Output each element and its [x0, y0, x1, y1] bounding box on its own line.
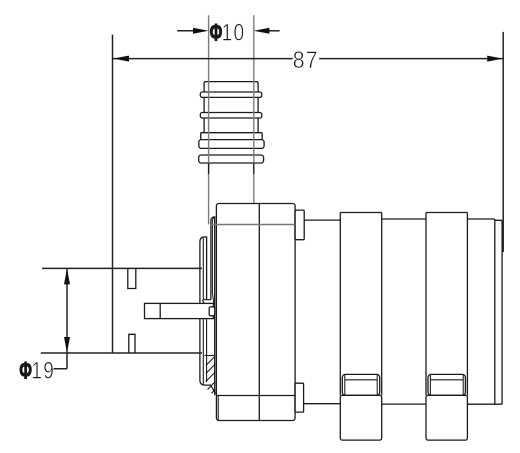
pump head inner wall bottom-left — [217, 396, 219, 421]
section hatching — [204, 355, 214, 357]
tube step collar — [201, 133, 263, 140]
arrowhead Phi19 down — [64, 337, 70, 353]
rear flange plate B — [211, 217, 215, 395]
clamp 2 buckle — [428, 374, 465, 395]
gray line across pump head — [211, 224, 295, 226]
arrowhead 87 right — [487, 56, 503, 62]
extension line 87 left — [112, 35, 114, 353]
svg-text:87: 87 — [293, 46, 319, 74]
pump head parting line vertical — [258, 204, 260, 421]
bracket shelf above shaft — [202, 300, 211, 304]
tube wide block — [199, 140, 264, 149]
extension line Phi10 right (gray) — [253, 15, 255, 203]
arrowhead Phi19 up — [64, 268, 70, 284]
rear flange plate B inner wall — [212, 217, 214, 302]
extension line Phi19 top — [42, 267, 202, 269]
dimension line Phi19 — [66, 268, 68, 353]
outlet tab top right — [295, 210, 304, 240]
dimension Phi10 arrow left — [177, 30, 194, 32]
bracket plate A lower part — [200, 319, 216, 394]
locating pin bottom — [129, 334, 135, 353]
tube section 2 — [204, 97, 258, 112]
svg-text:10: 10 — [222, 18, 246, 46]
motor shaft — [145, 303, 214, 318]
bracket plate A — [200, 237, 207, 304]
extension line Phi19 bottom — [41, 352, 202, 354]
pump head bottom joint line — [216, 395, 295, 397]
extension line Phi10 left (gray) — [208, 15, 210, 224]
clamp band 1 — [340, 213, 381, 396]
leader Phi19 — [54, 353, 67, 369]
tube section 3 — [204, 118, 258, 133]
clamp band 2 — [426, 213, 467, 396]
dimension Phi10 arrow right — [269, 30, 280, 32]
shaft flat divider — [159, 303, 161, 318]
svg-text:Φ: Φ — [210, 20, 223, 46]
tube lower neck — [209, 163, 254, 174]
motor end cap — [495, 219, 502, 404]
pump head body — [216, 204, 295, 421]
svg-text:Φ: Φ — [19, 358, 32, 384]
shaft retaining clip — [209, 307, 215, 316]
dimension line 87 — [113, 58, 503, 60]
motor bottom edge segments — [304, 403, 503, 406]
outlet tab bottom right — [295, 383, 304, 412]
arrowhead 87 left — [113, 56, 129, 62]
svg-text:19: 19 — [31, 356, 55, 384]
barb ring 3 — [199, 155, 264, 163]
barb ring 2 — [200, 113, 261, 119]
clamp 1 foot — [340, 395, 381, 440]
locating pin top — [128, 269, 136, 289]
barb ring 1 — [200, 92, 261, 97]
inlet tube top section — [204, 82, 258, 92]
clamp 1 buckle — [342, 374, 379, 395]
motor top edge segments — [304, 219, 502, 220]
clamp 2 foot — [426, 395, 467, 440]
extension line 87 right — [502, 32, 504, 252]
